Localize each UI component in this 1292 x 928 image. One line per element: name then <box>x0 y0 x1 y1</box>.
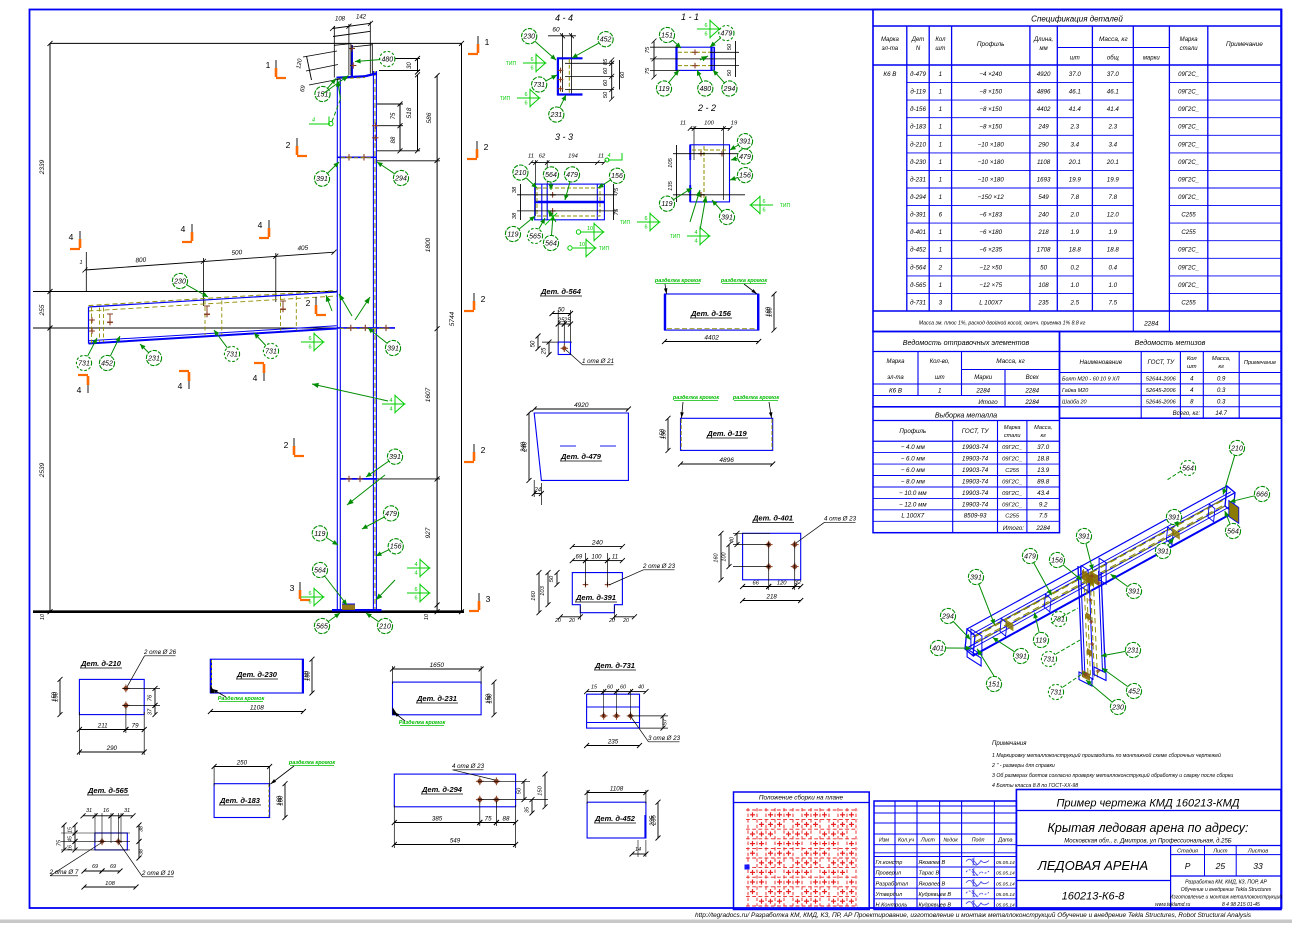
svg-text:75: 75 <box>645 67 651 74</box>
table Vedomost otpravochnykh elementov <box>873 332 1060 407</box>
svg-text:L 100X7: L 100X7 <box>979 299 1002 306</box>
svg-text:Дет. д-119: Дет. д-119 <box>706 429 747 438</box>
beam top edge <box>89 292 337 307</box>
title block: signature table <box>874 801 1016 910</box>
svg-text:20: 20 <box>622 618 629 624</box>
svg-text:2: 2 <box>284 440 289 450</box>
svg-text:Московская обл., г. Дмитров, у: Московская обл., г. Дмитров, ул Професси… <box>1064 839 1232 845</box>
svg-text:09Г2С_: 09Г2С_ <box>1002 491 1022 497</box>
svg-text:д-210: д-210 <box>910 141 926 148</box>
svg-text:160: 160 <box>714 552 720 562</box>
svg-text:14.7: 14.7 <box>1215 411 1227 417</box>
svg-text:д-564: д-564 <box>910 264 926 271</box>
svg-text:Яковлев В: Яковлев В <box>918 860 946 866</box>
svg-text:120: 120 <box>777 580 787 586</box>
svg-text:4920: 4920 <box>574 402 589 409</box>
svg-text:7.5: 7.5 <box>1039 513 1048 520</box>
svg-text:16: 16 <box>103 808 110 814</box>
svg-text:79: 79 <box>132 722 139 729</box>
beam bolts <box>89 317 95 323</box>
svg-text:4 Болты класса 8.8 по ГОСТ-ХХ: 4 Болты класса 8.8 по ГОСТ-ХХ-98 <box>992 783 1078 789</box>
svg-text:3.4: 3.4 <box>1070 141 1079 148</box>
svg-text:ТИП: ТИП <box>506 61 517 67</box>
svg-text:мм: мм <box>1039 46 1047 52</box>
section 4-4 right dims <box>611 60 613 99</box>
section 3-3 dims top <box>531 162 604 164</box>
svg-text:Дет. д-731: Дет. д-731 <box>594 661 635 670</box>
balloon 480 <box>697 70 713 96</box>
svg-text:Дет. д-452: Дет. д-452 <box>594 814 636 823</box>
svg-text:− 4.0 мм: − 4.0 мм <box>901 444 926 451</box>
svg-text:4920: 4920 <box>1037 71 1051 78</box>
svg-text:25: 25 <box>1215 861 1226 871</box>
detail d-210 <box>80 659 122 668</box>
svg-text:6: 6 <box>308 336 311 342</box>
svg-text:0.3: 0.3 <box>1217 399 1226 405</box>
svg-text:−12 ×75: −12 ×75 <box>979 282 1002 289</box>
svg-text:151: 151 <box>988 681 1000 688</box>
svg-text:д-294: д-294 <box>910 194 926 201</box>
specification table (Spetsifikatsiya detaley) <box>873 10 1281 332</box>
svg-text:290: 290 <box>106 745 118 752</box>
svg-text:38: 38 <box>512 186 518 193</box>
svg-text:Дет. д-231: Дет. д-231 <box>416 694 457 703</box>
svg-text:−6 ×235: −6 ×235 <box>979 247 1002 254</box>
svg-text:119: 119 <box>507 231 518 238</box>
svg-text:4: 4 <box>694 239 697 245</box>
svg-text:927: 927 <box>425 527 432 538</box>
svg-text:−10 ×180: −10 ×180 <box>978 176 1005 183</box>
svg-text:Обучение и внедрение Tekla Str: Обучение и внедрение Tekla Structures <box>1181 887 1272 893</box>
svg-text:6: 6 <box>524 92 527 98</box>
svg-text:4 отв Ø 23: 4 отв Ø 23 <box>452 763 485 770</box>
svg-text:С255: С255 <box>1181 230 1196 236</box>
svg-text:Дет. д-564: Дет. д-564 <box>540 287 582 296</box>
section mark 2 <box>464 293 486 311</box>
svg-text:0.4: 0.4 <box>1108 264 1117 271</box>
svg-text:391: 391 <box>1157 548 1169 555</box>
svg-text:−6 ×183: −6 ×183 <box>979 212 1002 219</box>
svg-text:24: 24 <box>533 487 541 493</box>
svg-text:2: 2 <box>481 445 486 455</box>
svg-text:731: 731 <box>1050 689 1062 696</box>
section mark 1 <box>266 60 286 78</box>
svg-text:38: 38 <box>139 826 145 832</box>
detail d-119 <box>681 418 773 450</box>
svg-text:6: 6 <box>308 345 311 351</box>
svg-text:Всего, кг:: Всего, кг: <box>1173 411 1201 417</box>
svg-text:− 10.0 мм: − 10.0 мм <box>899 490 927 497</box>
svg-text:д-565: д-565 <box>910 282 926 289</box>
cap left slanted dims 120/69 <box>307 56 312 80</box>
svg-text:160: 160 <box>531 590 537 600</box>
section mark 4 <box>69 231 80 249</box>
svg-text:294: 294 <box>941 613 954 620</box>
balloon 480 <box>355 51 395 66</box>
svg-text:75: 75 <box>614 208 620 215</box>
svg-text:3: 3 <box>290 583 295 593</box>
balloon 452 <box>1102 668 1142 699</box>
flag weld symbol near cap <box>309 123 330 125</box>
balloon 119 <box>656 70 679 96</box>
balloon 151 <box>986 676 1001 691</box>
balloon 564 <box>1225 511 1241 539</box>
svg-text:249: 249 <box>1037 124 1049 131</box>
svg-text:6: 6 <box>308 591 311 597</box>
svg-text:479: 479 <box>1024 553 1036 560</box>
balloon 731 <box>1048 684 1063 699</box>
svg-text:160: 160 <box>304 670 310 681</box>
svg-text:1: 1 <box>939 194 942 201</box>
svg-text:4402: 4402 <box>704 334 719 341</box>
svg-text:09Г2С_: 09Г2С_ <box>1178 248 1199 254</box>
balloon 391 <box>1111 574 1142 598</box>
svg-text:Болт М20 - 60 10 9 ХЛ: Болт М20 - 60 10 9 ХЛ <box>1062 377 1120 383</box>
svg-text:1 - 1: 1 - 1 <box>681 12 699 22</box>
svg-text:479: 479 <box>721 31 733 38</box>
svg-text:230: 230 <box>1111 704 1124 711</box>
svg-text:19903-74: 19903-74 <box>962 490 989 497</box>
svg-text:564: 564 <box>545 240 557 247</box>
svg-text:Изм: Изм <box>879 838 889 844</box>
svg-text:103: 103 <box>540 585 546 595</box>
svg-text:разделка кромок: разделка кромок <box>288 760 336 766</box>
svg-text:1 отв Ø 21: 1 отв Ø 21 <box>582 358 614 365</box>
svg-text:−8 ×150: −8 ×150 <box>979 106 1002 113</box>
svg-text:ТИП: ТИП <box>670 234 681 240</box>
svg-text:391: 391 <box>739 139 751 146</box>
svg-text:150: 150 <box>660 428 666 439</box>
svg-text:385: 385 <box>432 815 443 822</box>
svg-text:100: 100 <box>704 121 714 127</box>
svg-text:− 12.0 мм: − 12.0 мм <box>899 501 927 508</box>
svg-text:ТИП: ТИП <box>500 96 511 102</box>
svg-text:10: 10 <box>587 226 593 232</box>
svg-text:7.5: 7.5 <box>1108 299 1117 306</box>
svg-text:09Г2С_: 09Г2С_ <box>1178 107 1199 113</box>
blue position marker on plan <box>745 865 750 870</box>
svg-text:Листов: Листов <box>1247 848 1268 854</box>
svg-text:Дет. д-565: Дет. д-565 <box>87 786 129 795</box>
svg-text:09Г2С_: 09Г2С_ <box>1178 265 1199 271</box>
svg-text:д-401: д-401 <box>910 229 926 236</box>
svg-text:1800: 1800 <box>425 237 432 252</box>
connection line at y=478.9 with bolts <box>340 478 376 480</box>
svg-text:46.1: 46.1 <box>1107 89 1119 96</box>
svg-text:391: 391 <box>721 214 733 221</box>
svg-text:50: 50 <box>603 91 609 98</box>
column bottom end plates <box>1079 672 1092 686</box>
balloon 230 <box>522 29 556 60</box>
svg-text:3.4: 3.4 <box>1108 141 1117 148</box>
column top connection olive patch <box>1082 570 1093 585</box>
svg-text:0.3: 0.3 <box>1217 388 1226 394</box>
svg-text:1.0: 1.0 <box>1070 282 1079 289</box>
section 2-2 shape <box>690 145 729 202</box>
svg-text:ЛЕДОВАЯ АРЕНА: ЛЕДОВАЯ АРЕНА <box>1037 858 1148 873</box>
svg-text:479: 479 <box>739 154 751 161</box>
svg-text:119: 119 <box>1035 637 1046 644</box>
balloon 731 <box>254 333 279 359</box>
svg-text:Итого:: Итого: <box>1003 525 1024 532</box>
svg-text:09Г2С_: 09Г2С_ <box>1178 195 1199 201</box>
svg-text:69: 69 <box>92 864 98 870</box>
svg-text:Кол-во,: Кол-во, <box>930 359 950 365</box>
svg-text:4402: 4402 <box>1037 106 1051 113</box>
svg-text:41.4: 41.4 <box>1107 106 1120 113</box>
svg-text:д-183: д-183 <box>910 124 926 131</box>
svg-text:разделка кромок: разделка кромок <box>720 278 768 284</box>
weld symbol <box>573 239 596 258</box>
weld symbol <box>517 89 540 108</box>
balloon 391 <box>730 134 753 150</box>
svg-text:Гайка М20: Гайка М20 <box>1062 387 1088 394</box>
svg-text:разделка кромок: разделка кромок <box>732 395 780 401</box>
svg-text:391: 391 <box>1168 514 1180 521</box>
svg-text:19.9: 19.9 <box>1069 176 1082 183</box>
svg-text:20.1: 20.1 <box>1106 159 1119 166</box>
svg-text:09Г2С_: 09Г2С_ <box>1002 457 1022 463</box>
detail d-230 <box>210 659 303 693</box>
svg-text:2 '' - размеры для справки: 2 '' - размеры для справки <box>991 763 1055 769</box>
isometric view of assembly <box>965 486 1239 686</box>
svg-text:2284: 2284 <box>975 388 990 395</box>
svg-text:69: 69 <box>110 864 116 870</box>
svg-text:Итого: Итого <box>978 399 998 406</box>
svg-text:−150 ×12: −150 ×12 <box>978 194 1005 201</box>
svg-text:50: 50 <box>517 787 523 794</box>
svg-text:150: 150 <box>486 693 492 704</box>
svg-text:Разделка кромок: Разделка кромок <box>218 696 266 702</box>
svg-text:2284: 2284 <box>1024 399 1039 406</box>
svg-text:37: 37 <box>148 708 154 715</box>
svg-text:−10 ×180: −10 ×180 <box>978 141 1005 148</box>
svg-text:д-231: д-231 <box>910 176 926 183</box>
balloon 156 <box>730 168 753 183</box>
svg-text:Профиль: Профиль <box>899 428 926 435</box>
svg-text:Дет. д-156: Дет. д-156 <box>690 309 732 318</box>
svg-text:564: 564 <box>1182 465 1194 472</box>
svg-text:2.5: 2.5 <box>1069 299 1079 306</box>
svg-text:− 6.0 мм: − 6.0 мм <box>901 456 926 463</box>
svg-text:10: 10 <box>40 613 46 620</box>
svg-text:www.teklamd.ru: www.teklamd.ru <box>1155 902 1191 908</box>
detail d-401 <box>752 514 794 523</box>
svg-text:4: 4 <box>312 118 315 124</box>
svg-text:Примечание: Примечание <box>1226 41 1263 48</box>
svg-text:8 4 98 215 01-45: 8 4 98 215 01-45 <box>1222 902 1260 908</box>
svg-text:Дет. д-294: Дет. д-294 <box>421 785 463 794</box>
svg-text:12.0: 12.0 <box>1107 212 1120 219</box>
connection line at y=157 with bolts <box>337 156 376 158</box>
svg-text:294: 294 <box>394 175 407 182</box>
svg-text:108: 108 <box>335 17 346 23</box>
svg-text:240: 240 <box>521 441 527 453</box>
svg-text:731: 731 <box>1043 656 1055 663</box>
detail d-564 <box>540 287 582 296</box>
svg-text:6: 6 <box>762 208 765 214</box>
svg-text:38: 38 <box>512 212 518 219</box>
svg-text:3: 3 <box>939 299 943 306</box>
svg-text:09Г2С_: 09Г2С_ <box>1178 72 1199 78</box>
svg-text:1: 1 <box>266 60 271 70</box>
svg-text:391: 391 <box>1015 653 1027 660</box>
bolts on right flange upper <box>372 123 378 129</box>
balloon 391 <box>1155 538 1173 558</box>
balloon 479 <box>1022 548 1051 595</box>
svg-text:3 Об размерах болтов согласно: 3 Об размерах болтов согласно проверку м… <box>992 772 1233 779</box>
svg-text:518: 518 <box>406 107 413 118</box>
svg-text:41.4: 41.4 <box>1069 106 1082 113</box>
svg-text:20: 20 <box>554 618 561 624</box>
balloon 294 <box>940 608 970 639</box>
svg-text:6: 6 <box>704 23 707 29</box>
svg-text:Подп: Подп <box>972 838 985 844</box>
beam olive center dashed lines <box>976 499 1226 636</box>
svg-text:40: 40 <box>730 536 736 543</box>
svg-text:1: 1 <box>939 282 942 289</box>
balloon 391 <box>368 328 401 356</box>
horizontal reference line at beam top <box>33 291 337 293</box>
svg-text:6: 6 <box>308 600 311 606</box>
svg-text:119: 119 <box>658 86 669 93</box>
beam left end plate <box>88 307 90 344</box>
svg-text:210: 210 <box>514 170 527 177</box>
svg-text:235: 235 <box>650 815 656 827</box>
svg-text:50: 50 <box>727 69 733 76</box>
svg-text:20: 20 <box>568 618 575 624</box>
svg-text:Кол.уч: Кол.уч <box>898 838 914 844</box>
svg-text:105: 105 <box>668 157 674 167</box>
svg-text:2284: 2284 <box>1035 525 1050 532</box>
svg-text:135: 135 <box>668 180 674 190</box>
svg-text:75: 75 <box>485 815 492 822</box>
svg-text:2 отв Ø 23: 2 отв Ø 23 <box>642 563 676 570</box>
section mark 4 <box>77 375 88 395</box>
column base plate <box>332 609 382 611</box>
svg-text:2: 2 <box>481 294 486 304</box>
svg-text:85: 85 <box>603 58 609 65</box>
weld symbol <box>407 559 430 578</box>
balloon 119 <box>312 526 338 545</box>
svg-text:−8 ×150: −8 ×150 <box>979 89 1002 96</box>
svg-text:Проверил: Проверил <box>876 871 902 877</box>
balloon 479 <box>564 167 580 200</box>
svg-text:Кудрявцев В: Кудрявцев В <box>919 892 952 898</box>
left end lower plates <box>967 649 981 666</box>
column bolts <box>1086 612 1091 621</box>
svg-text:452: 452 <box>101 360 113 367</box>
svg-text:эл-та: эл-та <box>887 375 904 381</box>
svg-text:150: 150 <box>52 691 58 702</box>
svg-text:2 отв Ø 7: 2 отв Ø 7 <box>49 869 79 876</box>
svg-text:Масса зм. плюс 1%, расход двой: Масса зм. плюс 1%, расход двойной косой,… <box>919 320 1086 327</box>
svg-text:Наименование: Наименование <box>1079 359 1122 366</box>
svg-text:37.0: 37.0 <box>1069 71 1082 78</box>
svg-text:3: 3 <box>486 594 491 604</box>
svg-text:452: 452 <box>600 37 612 44</box>
small olive bolt patches on beam <box>1005 619 1013 631</box>
svg-text:19903-74: 19903-74 <box>962 444 989 451</box>
svg-text:д-452: д-452 <box>910 247 926 254</box>
svg-text:194: 194 <box>568 154 578 160</box>
svg-text:6: 6 <box>530 66 533 72</box>
dimension 30 top right <box>417 59 419 73</box>
svg-text:д-391: д-391 <box>910 212 926 219</box>
balloon 564 <box>312 562 347 605</box>
svg-text:Ведомость отправочных элементо: Ведомость отправочных элементов <box>903 338 1030 347</box>
balloon 401 <box>930 640 971 655</box>
svg-text:1: 1 <box>939 176 942 183</box>
svg-text:ГОСТ, ТУ: ГОСТ, ТУ <box>1147 359 1175 366</box>
svg-text:L 100X7: L 100X7 <box>901 513 924 520</box>
balloon 119 <box>659 188 692 211</box>
upper stub plate <box>351 45 353 77</box>
balloon 231 <box>1101 642 1141 657</box>
svg-text:731: 731 <box>226 351 238 358</box>
svg-text:25: 25 <box>542 347 548 355</box>
svg-text:Положение сборки на плане: Положение сборки на плане <box>759 794 844 802</box>
weld symbol <box>301 588 324 607</box>
balloon 565 <box>527 218 545 243</box>
detail d-479 <box>534 413 628 480</box>
svg-text:160: 160 <box>766 306 772 317</box>
svg-text:Длина,: Длина, <box>1033 37 1053 43</box>
svg-text:4: 4 <box>181 224 186 234</box>
svg-text:4: 4 <box>253 373 258 383</box>
svg-text:391: 391 <box>387 345 399 352</box>
svg-text:4 отв Ø 23: 4 отв Ø 23 <box>824 516 857 523</box>
svg-text:Дет. д-210: Дет. д-210 <box>80 659 122 668</box>
svg-text:Примечание: Примечание <box>1244 360 1276 366</box>
svg-text:666: 666 <box>1256 491 1268 498</box>
svg-text:стали: стали <box>1004 433 1021 439</box>
section 4-4 channel shape <box>557 58 559 96</box>
svg-text:Примечания: Примечания <box>992 741 1027 747</box>
svg-text:шт: шт <box>935 375 945 381</box>
svg-text:Выборка металла: Выборка металла <box>935 411 997 420</box>
svg-text:60: 60 <box>607 685 614 691</box>
svg-text:142: 142 <box>356 15 367 21</box>
svg-text:11: 11 <box>598 154 604 160</box>
section mark 4 <box>253 363 264 383</box>
blue signature scribbles <box>966 858 989 908</box>
svg-text:391: 391 <box>389 454 401 461</box>
svg-text:2 отв Ø 26: 2 отв Ø 26 <box>143 649 177 656</box>
svg-text:Стадия: Стадия <box>1177 848 1198 854</box>
svg-text:11: 11 <box>612 554 618 560</box>
svg-text:1: 1 <box>939 247 942 254</box>
svg-text:Пример чертежа КМД 160213-КМД: Пример чертежа КМД 160213-КМД <box>1056 798 1239 810</box>
svg-text:564: 564 <box>1227 528 1239 535</box>
svg-text:2539: 2539 <box>39 462 46 478</box>
svg-text:160213-К6-8: 160213-К6-8 <box>1062 891 1126 903</box>
section mark 2 <box>284 438 304 456</box>
weld symbol <box>697 20 720 39</box>
svg-text:52644-2006: 52644-2006 <box>1146 377 1177 383</box>
svg-text:31: 31 <box>86 808 92 814</box>
weld symbol <box>407 584 430 603</box>
misc green arrows <box>339 294 352 316</box>
svg-text:19: 19 <box>731 121 738 127</box>
svg-text:4: 4 <box>258 220 263 230</box>
svg-text:19.9: 19.9 <box>1107 176 1120 183</box>
svg-text:100: 100 <box>722 551 728 561</box>
svg-text:−8 ×150: −8 ×150 <box>979 124 1002 131</box>
left dimension line x=50 <box>49 43 51 611</box>
svg-text:Спецификация деталей: Спецификация деталей <box>1031 15 1123 24</box>
svg-text:Ведомость метизов: Ведомость метизов <box>1135 338 1206 347</box>
